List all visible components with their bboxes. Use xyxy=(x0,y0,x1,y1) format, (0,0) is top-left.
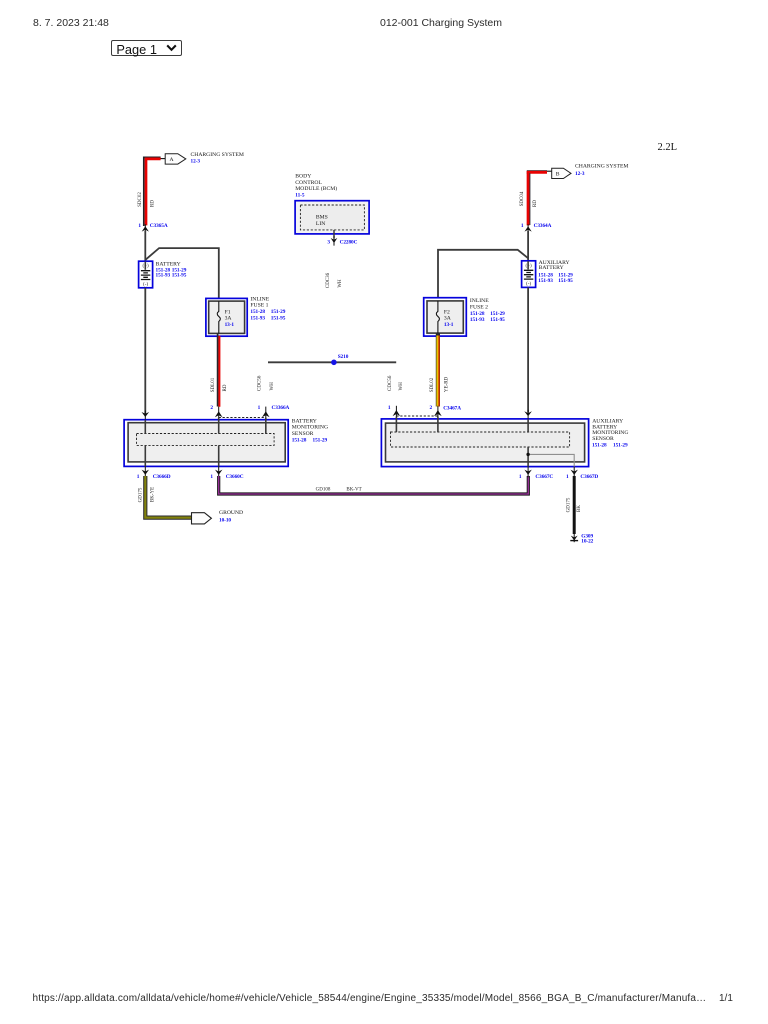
svg-text:BK: BK xyxy=(577,505,582,512)
aux sensor internal branch to C3667D xyxy=(526,453,574,467)
connector C3666D pin 1 xyxy=(137,466,171,480)
feed pin arrow into aux sensor top xyxy=(524,410,532,419)
svg-text:BATTERY: BATTERY xyxy=(156,261,181,267)
svg-text:C3666D: C3666D xyxy=(153,474,171,480)
connector C2280C pin 3 xyxy=(327,236,357,246)
label CHARGING SYSTEM 12-3 (right) xyxy=(575,164,628,178)
wire battery down to sensor xyxy=(144,288,146,414)
svg-text:RD: RD xyxy=(533,200,538,207)
svg-text:151-95: 151-95 xyxy=(490,317,505,323)
svg-text:151-95: 151-95 xyxy=(172,273,187,279)
wire SDC02 RD from off-page connector A down to C3365A xyxy=(144,157,166,226)
svg-text:1: 1 xyxy=(519,474,522,480)
svg-text:151-29: 151-29 xyxy=(271,309,286,315)
svg-text:CDC36: CDC36 xyxy=(326,272,331,288)
svg-text:SDC04: SDC04 xyxy=(520,191,525,206)
wire C3364A to aux battery xyxy=(527,231,529,261)
wire SDL02 YE-RD fuse 2 to sensor pin 2 xyxy=(438,333,439,406)
svg-text:BATTERY: BATTERY xyxy=(292,418,317,424)
svg-text:SDC02: SDC02 xyxy=(138,192,143,207)
svg-text:CONTROL: CONTROL xyxy=(295,180,322,186)
body control module U1 box xyxy=(295,201,369,234)
svg-text:C3667C: C3667C xyxy=(535,474,553,480)
print header date xyxy=(33,17,109,29)
svg-text:151-28: 151-28 xyxy=(592,442,607,448)
svg-text:10-22: 10-22 xyxy=(581,539,593,545)
wire aux battery down to sensor xyxy=(527,287,529,412)
svg-text:13-1: 13-1 xyxy=(444,322,454,328)
label INLINE FUSE 1 + refs xyxy=(250,297,285,322)
svg-text:YE-RD: YE-RD xyxy=(445,376,450,392)
label BATTERY + refs xyxy=(156,261,187,278)
connector C3667C pin 1 xyxy=(519,467,553,480)
svg-text:GD175: GD175 xyxy=(567,497,572,512)
connector C3467A pin 1 xyxy=(388,405,400,417)
svg-text:BMS: BMS xyxy=(316,215,328,221)
connector C3366A pin 1 xyxy=(258,405,290,418)
svg-text:3: 3 xyxy=(327,240,330,246)
wire GD175 BK to ground G309 xyxy=(573,476,576,534)
label BODY CONTROL MODULE (BCM) 11-5 xyxy=(295,174,337,199)
svg-text:(-): (-) xyxy=(526,282,531,287)
svg-text:151-28: 151-28 xyxy=(250,309,265,315)
label AUXILIARY BATTERY + refs xyxy=(538,260,573,284)
svg-text:SDL01: SDL01 xyxy=(211,377,216,392)
svg-text:C2280C: C2280C xyxy=(340,240,358,246)
ground symbol (left) xyxy=(192,513,212,524)
svg-text:151-93: 151-93 xyxy=(156,273,171,279)
svg-text:GD175: GD175 xyxy=(138,487,143,502)
svg-text:WH: WH xyxy=(399,382,404,391)
svg-text:1: 1 xyxy=(138,223,141,229)
svg-text:B: B xyxy=(556,172,560,178)
label BATTERY MONITORING SENSOR + refs xyxy=(292,418,328,443)
wire C3365A to battery xyxy=(144,231,146,261)
svg-text:151-95: 151-95 xyxy=(558,278,573,284)
svg-text:2: 2 xyxy=(430,405,433,411)
svg-text:C3667D: C3667D xyxy=(580,474,598,480)
connector C3366A dashed line xyxy=(219,417,266,419)
svg-text:SDL02: SDL02 xyxy=(430,377,435,392)
svg-text:151-93: 151-93 xyxy=(250,315,265,321)
svg-text:151-93: 151-93 xyxy=(538,278,553,284)
svg-text:1: 1 xyxy=(258,405,261,411)
connector C3364A pin 1 xyxy=(521,223,552,234)
svg-text:RD: RD xyxy=(223,384,228,391)
connector C3365A pin 1 xyxy=(138,223,167,234)
sensor internal wires (left) xyxy=(145,418,265,467)
battery monitoring sensor box xyxy=(124,420,288,467)
svg-text:151-29: 151-29 xyxy=(613,442,628,448)
aux sensor internal wires xyxy=(396,417,528,467)
svg-text:151-95: 151-95 xyxy=(271,315,286,321)
svg-text:F1: F1 xyxy=(225,309,231,315)
off-page connector A xyxy=(165,154,186,164)
wire SDL01 RD fuse 1 to sensor pin 2 xyxy=(218,333,220,406)
print footer url xyxy=(33,993,707,1004)
connector C3366A pin 2 xyxy=(210,405,222,418)
svg-text:C3467A: C3467A xyxy=(443,405,461,411)
svg-text:2: 2 xyxy=(210,405,213,411)
svg-text:INLINE: INLINE xyxy=(250,297,269,303)
wire GD108 BK-VT between sensors xyxy=(219,476,529,494)
svg-text:151-93: 151-93 xyxy=(470,317,485,323)
svg-text:C3660C: C3660C xyxy=(226,474,244,480)
label CHARGING SYSTEM 12-3 (left) xyxy=(191,152,244,165)
print header title xyxy=(380,17,502,29)
svg-text:GD108: GD108 xyxy=(316,487,331,492)
svg-text:BK-VT: BK-VT xyxy=(346,487,361,492)
svg-text:BATTERY: BATTERY xyxy=(539,265,564,271)
svg-text:WH: WH xyxy=(338,279,343,288)
ground symbol G309 xyxy=(570,532,578,542)
connector C3660C pin 1 xyxy=(210,466,243,480)
svg-text:F2: F2 xyxy=(444,309,450,315)
connector C3467A dashed line xyxy=(396,415,438,417)
svg-text:C3364A: C3364A xyxy=(534,223,552,229)
svg-text:SENSOR: SENSOR xyxy=(592,436,614,442)
svg-text:MODULE (BCM): MODULE (BCM) xyxy=(295,185,337,192)
print footer page number xyxy=(719,993,733,1004)
wire BCM to connector C2280C xyxy=(333,230,335,239)
splice S210 xyxy=(331,354,349,365)
svg-text:C3365A: C3365A xyxy=(150,223,168,229)
svg-text:S210: S210 xyxy=(338,354,349,360)
svg-text:2.2L: 2.2L xyxy=(658,142,678,153)
svg-text:FUSE 2: FUSE 2 xyxy=(470,304,488,310)
svg-text:SENSOR: SENSOR xyxy=(292,431,314,437)
svg-text:RD: RD xyxy=(151,200,156,207)
feed pin arrow into sensor top xyxy=(142,411,150,420)
wire GD175 BK-YE to ground xyxy=(145,476,191,518)
label GROUND 10-10 xyxy=(219,510,243,524)
svg-text:151-28: 151-28 xyxy=(292,437,307,443)
label G309 10-22 xyxy=(581,534,593,545)
svg-text:FUSE 1: FUSE 1 xyxy=(250,303,268,309)
svg-text:LIN: LIN xyxy=(316,221,325,227)
svg-text:1: 1 xyxy=(210,474,213,480)
connector C3467A pin 2 xyxy=(430,405,462,417)
connector C3667D pin 1 xyxy=(566,467,598,480)
svg-text:BODY: BODY xyxy=(295,174,311,180)
svg-text:1: 1 xyxy=(566,474,569,480)
wire branch aux battery to inline fuse 2 xyxy=(438,250,528,298)
auxiliary battery xyxy=(522,261,536,288)
svg-text:CDC56: CDC56 xyxy=(388,375,393,391)
svg-text:CHARGING SYSTEM: CHARGING SYSTEM xyxy=(575,164,628,170)
svg-text:12-3: 12-3 xyxy=(191,159,201,165)
wire SDC04 RD from off-page connector B down to C3364A xyxy=(527,171,552,226)
svg-text:MONITORING: MONITORING xyxy=(292,425,328,431)
svg-text:BK-YE: BK-YE xyxy=(150,487,155,502)
svg-text:1: 1 xyxy=(388,405,391,411)
svg-text:WH: WH xyxy=(270,382,275,391)
off-page connector B xyxy=(552,168,571,178)
svg-text:151-29: 151-29 xyxy=(313,437,328,443)
svg-text:1: 1 xyxy=(521,223,524,229)
svg-text:151-28: 151-28 xyxy=(470,311,485,317)
svg-text:10-10: 10-10 xyxy=(219,518,231,524)
svg-text:CDC56: CDC56 xyxy=(258,375,263,391)
svg-text:GROUND: GROUND xyxy=(219,510,243,516)
inline fuse 2 F2 3A xyxy=(424,298,467,336)
label INLINE FUSE 2 + refs xyxy=(470,298,505,323)
svg-text:3A: 3A xyxy=(225,316,233,322)
svg-text:13-1: 13-1 xyxy=(225,322,235,328)
svg-text:11-5: 11-5 xyxy=(295,192,305,198)
splice rail wire xyxy=(268,361,396,363)
inline fuse 1 F1 3A xyxy=(206,298,247,336)
wire branch battery to inline fuse 1 xyxy=(145,248,219,298)
auxiliary battery monitoring sensor box xyxy=(381,419,588,467)
battery (left) xyxy=(139,261,153,288)
page selector dropdown xyxy=(111,40,183,57)
svg-text:(-): (-) xyxy=(143,283,148,288)
label AUXILIARY BATTERY MONITORING SENSOR + refs xyxy=(592,418,628,448)
svg-text:151-29: 151-29 xyxy=(490,311,505,317)
svg-text:INLINE: INLINE xyxy=(470,298,489,304)
svg-text:3A: 3A xyxy=(444,316,452,322)
svg-text:CHARGING SYSTEM: CHARGING SYSTEM xyxy=(191,152,244,158)
svg-text:C3366A: C3366A xyxy=(272,405,290,411)
svg-text:1: 1 xyxy=(137,474,140,480)
svg-text:12-3: 12-3 xyxy=(575,171,585,177)
